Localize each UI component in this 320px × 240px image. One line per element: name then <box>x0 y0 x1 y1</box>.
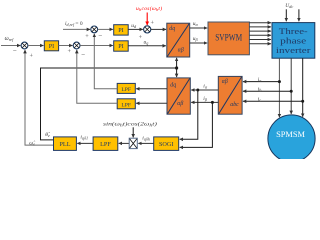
svg-text:uα: uα <box>193 21 199 27</box>
svg-text:PLL: PLL <box>59 141 70 148</box>
svg-text:iα: iα <box>203 84 208 90</box>
transform block alphabeta to dq <box>167 78 190 114</box>
svg-text:uq: uq <box>144 40 149 46</box>
svg-text:iqδ1: iqδ1 <box>80 135 88 141</box>
SOGI block <box>154 137 179 151</box>
svg-text:Three-: Three- <box>279 26 308 36</box>
svg-text:sin(ωht)cos(2ωht): sin(ωht)cos(2ωht) <box>103 121 157 128</box>
SVPWM block <box>208 22 249 55</box>
svg-text:ud: ud <box>131 23 137 29</box>
svg-text:PI: PI <box>49 43 55 50</box>
wire i_beta tap down to SOGI <box>180 102 213 147</box>
transform block dq to alphabeta <box>167 23 190 57</box>
wire theta down into alphabeta-dq block <box>176 68 178 77</box>
summing junction J2 d-current <box>91 26 98 33</box>
svg-text:iβ: iβ <box>203 96 208 102</box>
wire i_alpha tap down to SOGI <box>180 90 198 139</box>
svg-text:+: + <box>150 20 154 27</box>
wire J1 to PI speed <box>28 45 43 47</box>
svg-text:θ̂e: θ̂e <box>45 132 51 138</box>
wire phase b <box>290 58 292 114</box>
PI speed block <box>44 41 58 51</box>
wire ia to abc block <box>243 81 279 83</box>
wire i_alpha <box>191 89 218 91</box>
svg-text:SPMSM: SPMSM <box>276 130 305 139</box>
svg-text:LPF: LPF <box>121 102 131 108</box>
wire i_beta <box>191 101 218 103</box>
svg-text:inverter: inverter <box>276 45 311 55</box>
wire i_d to LPF1 <box>136 88 167 90</box>
PI d block <box>114 25 129 35</box>
svg-text:+: + <box>139 34 143 41</box>
wire omega hat from PLL to J1 feedback <box>25 50 54 145</box>
PWM gate wires <box>249 23 271 44</box>
multiplier junction square <box>129 138 137 148</box>
svg-text:−: − <box>81 50 85 58</box>
LPF3 block <box>93 137 118 151</box>
node dot i_beta tap <box>211 101 214 104</box>
svg-text:LPF: LPF <box>121 87 131 93</box>
wire J4 to PI q <box>80 45 113 47</box>
wire J3 to dq block <box>151 28 166 30</box>
node dot ib tap <box>290 90 293 93</box>
wire PI q to dq block with label u_q <box>128 45 166 47</box>
node dot ia tap <box>278 80 281 83</box>
wire U_dc arrow 1 <box>285 9 287 21</box>
svg-text:abc: abc <box>230 102 239 108</box>
demodulation arrow <box>132 127 134 137</box>
wire u_beta <box>190 42 207 44</box>
svg-text:−: − <box>13 46 17 54</box>
svg-text:αβ: αβ <box>222 79 228 85</box>
svg-text:iqδh: iqδh <box>142 136 150 142</box>
wire ib to abc block <box>243 90 291 92</box>
svg-text:+: + <box>29 52 33 59</box>
node dot ic tap <box>301 100 304 103</box>
summing junction J1 speed <box>21 42 28 49</box>
PI q block <box>114 41 129 51</box>
svg-text:+: + <box>85 33 89 40</box>
svg-text:Udc: Udc <box>285 3 293 9</box>
svg-text:id,ref = 0: id,ref = 0 <box>65 21 83 28</box>
svg-text:dq: dq <box>169 26 175 32</box>
svg-text:uβ: uβ <box>193 36 199 42</box>
wire omega_ref input <box>1 45 20 47</box>
svg-text:ic: ic <box>258 97 262 103</box>
svg-text:PI: PI <box>118 43 124 50</box>
svg-text:dq: dq <box>170 82 176 88</box>
PLL block <box>54 137 77 151</box>
wire U_dc arrow 2 <box>298 9 300 21</box>
svg-text:+: + <box>68 48 72 55</box>
wire multiplier to LPF3 <box>119 142 130 144</box>
summing junction J4 q-current <box>73 42 80 49</box>
wire phase a <box>278 58 280 117</box>
node dot theta branch <box>175 66 178 69</box>
wire u_alpha <box>190 27 207 29</box>
svg-text:LPF: LPF <box>100 141 111 148</box>
red injection arrow <box>146 13 148 26</box>
wire i_q to LPF2 <box>136 102 167 104</box>
three-phase inverter block <box>272 23 315 59</box>
wire LPF1 to J2 feedback <box>94 34 117 89</box>
svg-text:ωref: ωref <box>5 36 15 42</box>
SPMSM motor <box>268 115 315 162</box>
svg-text:αβ: αβ <box>177 101 183 107</box>
wire SOGI to multiplier <box>138 142 153 144</box>
svg-text:−: − <box>98 32 102 40</box>
svg-text:αβ: αβ <box>178 47 184 53</box>
LPF2 block <box>117 99 135 109</box>
wire PI speed to J4 <box>59 45 73 47</box>
wire i_dref input <box>63 28 90 30</box>
wire phase c <box>302 58 304 116</box>
transform block abc to alphabeta <box>218 76 242 114</box>
svg-text:ib: ib <box>258 87 262 93</box>
theta wire from PLL up and across <box>41 68 177 140</box>
svg-text:SOGI: SOGI <box>159 141 173 148</box>
wire LPF3 to PLL <box>77 142 93 144</box>
svg-text:SVPWM: SVPWM <box>215 33 242 43</box>
svg-text:PI: PI <box>118 27 124 34</box>
wire LPF2 to J4 feedback <box>77 50 117 103</box>
wire PI d to J3 with label u_d <box>128 28 143 30</box>
wire ic to abc block <box>243 100 303 102</box>
node dot i_alpha tap <box>196 89 199 92</box>
wire theta up into dq-alphabeta block <box>176 58 178 68</box>
summing junction J3 injection <box>144 26 151 33</box>
wire J2 to PI d <box>98 28 113 30</box>
svg-text:ia: ia <box>258 77 262 83</box>
LPF1 block <box>117 83 135 93</box>
svg-text:uhcos(ωht): uhcos(ωht) <box>136 5 162 12</box>
